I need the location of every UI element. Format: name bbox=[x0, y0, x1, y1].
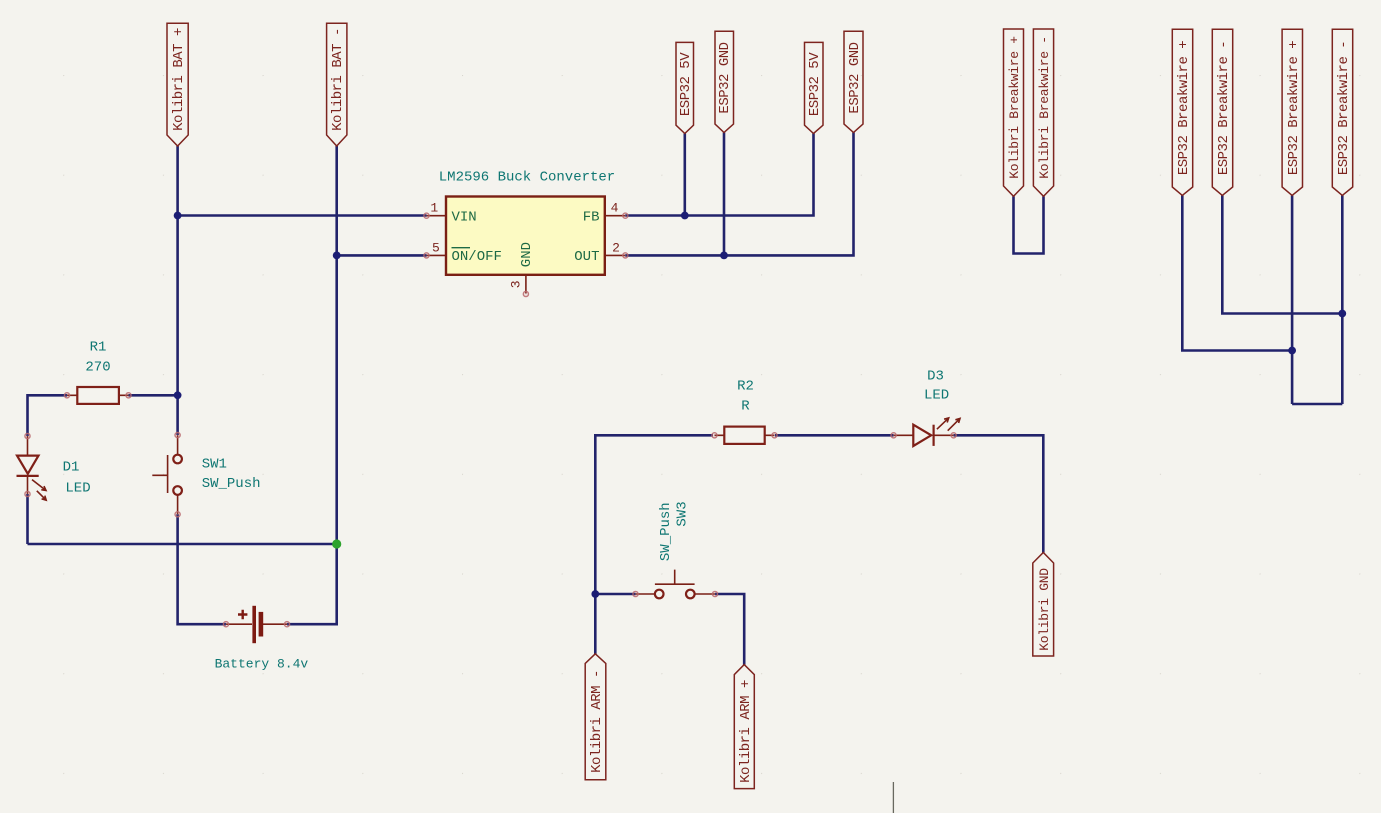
node Kolibri GND label bbox=[1033, 553, 1054, 657]
LED D1 bbox=[17, 433, 47, 500]
svg-text:LM2596 Buck Converter: LM2596 Buck Converter bbox=[439, 169, 615, 185]
wire Kolibri BAT + vertical bus bbox=[176, 146, 179, 435]
node Kolibri Breakwire + label bbox=[1004, 29, 1024, 196]
battery BT1 bbox=[223, 606, 289, 643]
wire ESP32 Breakwire -1 drop bbox=[1222, 195, 1342, 313]
wire ESP32 GND drop bbox=[723, 133, 726, 256]
pin 1 VIN bbox=[424, 200, 477, 225]
svg-text:3: 3 bbox=[509, 280, 524, 288]
svg-text:5: 5 bbox=[432, 240, 440, 255]
wire ESP32 5V drop bbox=[683, 134, 686, 216]
node ESP32 Breakwire + label 2 bbox=[1282, 29, 1302, 195]
svg-text:270: 270 bbox=[85, 359, 110, 375]
text SW1 value bbox=[202, 457, 261, 493]
svg-text:ESP32 Breakwire +: ESP32 Breakwire + bbox=[1176, 41, 1192, 175]
wire SW1 to battery + bbox=[178, 514, 226, 624]
svg-text:Kolibri BAT +: Kolibri BAT + bbox=[171, 28, 187, 131]
node Kolibri BAT - label bbox=[327, 23, 347, 146]
junction at SW3 / ARM- bbox=[591, 590, 599, 598]
svg-text:VIN: VIN bbox=[452, 210, 477, 226]
node Kolibri BAT + label bbox=[167, 23, 188, 146]
pin 5 ON/OFF bbox=[424, 240, 502, 265]
junction at BAT+ / VIN bbox=[174, 212, 182, 220]
resistor R1 bbox=[64, 387, 131, 404]
svg-text:FB: FB bbox=[583, 210, 600, 226]
switch SW1 bbox=[152, 433, 182, 517]
svg-text:GND: GND bbox=[519, 242, 535, 267]
wire SW3 left stub bbox=[595, 593, 635, 596]
svg-text:OUT: OUT bbox=[574, 249, 599, 265]
svg-text:ESP32 Breakwire -: ESP32 Breakwire - bbox=[1216, 41, 1232, 175]
junction at Breakwire net 1 bbox=[1288, 347, 1296, 355]
text D3 value bbox=[924, 368, 949, 403]
junction at BAT+ / R1 bbox=[174, 391, 182, 399]
svg-text:ESP32 GND: ESP32 GND bbox=[717, 42, 733, 113]
wire ESP32 Breakwire +2 vertical bbox=[1291, 195, 1294, 404]
svg-text:Kolibri Breakwire +: Kolibri Breakwire + bbox=[1007, 36, 1022, 179]
junction at ESP32 GND / OUT bbox=[720, 252, 728, 260]
svg-text:ESP32 Breakwire -: ESP32 Breakwire - bbox=[1336, 41, 1352, 175]
svg-text:Kolibri ARM +: Kolibri ARM + bbox=[738, 680, 754, 783]
svg-text:ESP32 Breakwire +: ESP32 Breakwire + bbox=[1286, 41, 1302, 175]
wire BAT+ to VIN bbox=[178, 214, 427, 217]
wire Kolibri Breakwire U-link bbox=[1014, 196, 1044, 253]
svg-text:SW3: SW3 bbox=[675, 501, 691, 526]
svg-text:R1: R1 bbox=[90, 339, 107, 355]
op-amp U1 LM2596 box bbox=[446, 197, 605, 275]
svg-text:SW1: SW1 bbox=[202, 457, 227, 473]
node Kolibri ARM - label bbox=[585, 654, 606, 780]
LED D3 bbox=[891, 418, 960, 446]
svg-text:R2: R2 bbox=[737, 379, 754, 395]
svg-text:ON/OFF: ON/OFF bbox=[452, 249, 502, 265]
node Kolibri Breakwire - label bbox=[1033, 29, 1053, 196]
svg-text:Kolibri ARM -: Kolibri ARM - bbox=[589, 670, 605, 773]
svg-text:R: R bbox=[741, 399, 750, 415]
wire bottom link bbox=[1292, 403, 1342, 406]
junction green at BAT- / LED return bbox=[332, 539, 341, 548]
node Kolibri ARM + label bbox=[734, 665, 754, 789]
svg-text:Kolibri GND: Kolibri GND bbox=[1037, 568, 1052, 651]
text R2 value bbox=[737, 379, 754, 415]
text D1 value bbox=[63, 460, 91, 497]
svg-text:Kolibri Breakwire -: Kolibri Breakwire - bbox=[1037, 36, 1052, 179]
wire R1 right bbox=[129, 394, 178, 397]
wire OUT to ESP32 GND bbox=[625, 133, 853, 256]
node ESP32 GND label 2 bbox=[844, 31, 863, 132]
junction at BAT- / ON-OFF bbox=[333, 252, 341, 260]
junction at ESP32 5V / FB bbox=[681, 212, 689, 220]
wire SW3 right to Kolibri ARM + bbox=[715, 594, 744, 665]
svg-text:ESP32 5V: ESP32 5V bbox=[807, 52, 823, 116]
wire D1 cathode down bbox=[26, 494, 29, 544]
pin 2 OUT bbox=[574, 241, 628, 266]
svg-text:ESP32 GND: ESP32 GND bbox=[847, 42, 863, 113]
node ESP32 5V label 2 bbox=[805, 42, 824, 133]
switch SW3 bbox=[633, 570, 718, 599]
svg-text:LED: LED bbox=[924, 387, 949, 403]
svg-text:SW_Push: SW_Push bbox=[202, 476, 261, 492]
wire Kolibri BAT - vertical bus down to battery bbox=[287, 146, 337, 624]
svg-text:D3: D3 bbox=[927, 368, 944, 384]
wire ESP32 Breakwire -2 vertical bbox=[1341, 195, 1344, 404]
svg-text:Kolibri BAT -: Kolibri BAT - bbox=[330, 28, 346, 131]
wire D3 to Kolibri GND bbox=[954, 435, 1044, 552]
node ESP32 GND label 1 bbox=[715, 31, 734, 132]
svg-text:1: 1 bbox=[430, 200, 438, 215]
node ESP32 Breakwire + label 1 bbox=[1172, 29, 1192, 195]
wire ESP32 Breakwire +1 drop bbox=[1182, 195, 1292, 350]
svg-text:SW_Push: SW_Push bbox=[658, 502, 674, 561]
node ESP32 5V label 1 bbox=[676, 42, 694, 133]
wire R2 left to Kolibri ARM - bbox=[595, 435, 713, 654]
pin 3 GND bbox=[509, 242, 536, 297]
wire R1 left to D1 anode bbox=[28, 395, 68, 436]
wire BAT- to ON/OFF bbox=[337, 254, 427, 257]
resistor R2 bbox=[712, 427, 777, 444]
node ESP32 Breakwire - label 2 bbox=[1332, 29, 1352, 195]
svg-text:ESP32 5V: ESP32 5V bbox=[678, 52, 694, 116]
node ESP32 Breakwire - label 1 bbox=[1212, 29, 1232, 195]
wire sheet border fragment bbox=[892, 782, 894, 813]
wire LED return y544 bbox=[28, 543, 337, 546]
svg-text:Battery 8.4v: Battery 8.4v bbox=[215, 657, 309, 672]
text R1 value bbox=[85, 339, 110, 375]
svg-text:D1: D1 bbox=[63, 460, 80, 476]
text SW3 value bbox=[658, 501, 691, 561]
svg-text:4: 4 bbox=[611, 201, 619, 216]
wire R2 to D3 bbox=[775, 434, 894, 437]
junction at Breakwire net 2 bbox=[1338, 310, 1346, 318]
pin 4 FB bbox=[583, 201, 628, 226]
wire FB to ESP32 5V bbox=[625, 134, 813, 216]
svg-text:LED: LED bbox=[65, 480, 90, 496]
svg-text:2: 2 bbox=[612, 241, 620, 256]
